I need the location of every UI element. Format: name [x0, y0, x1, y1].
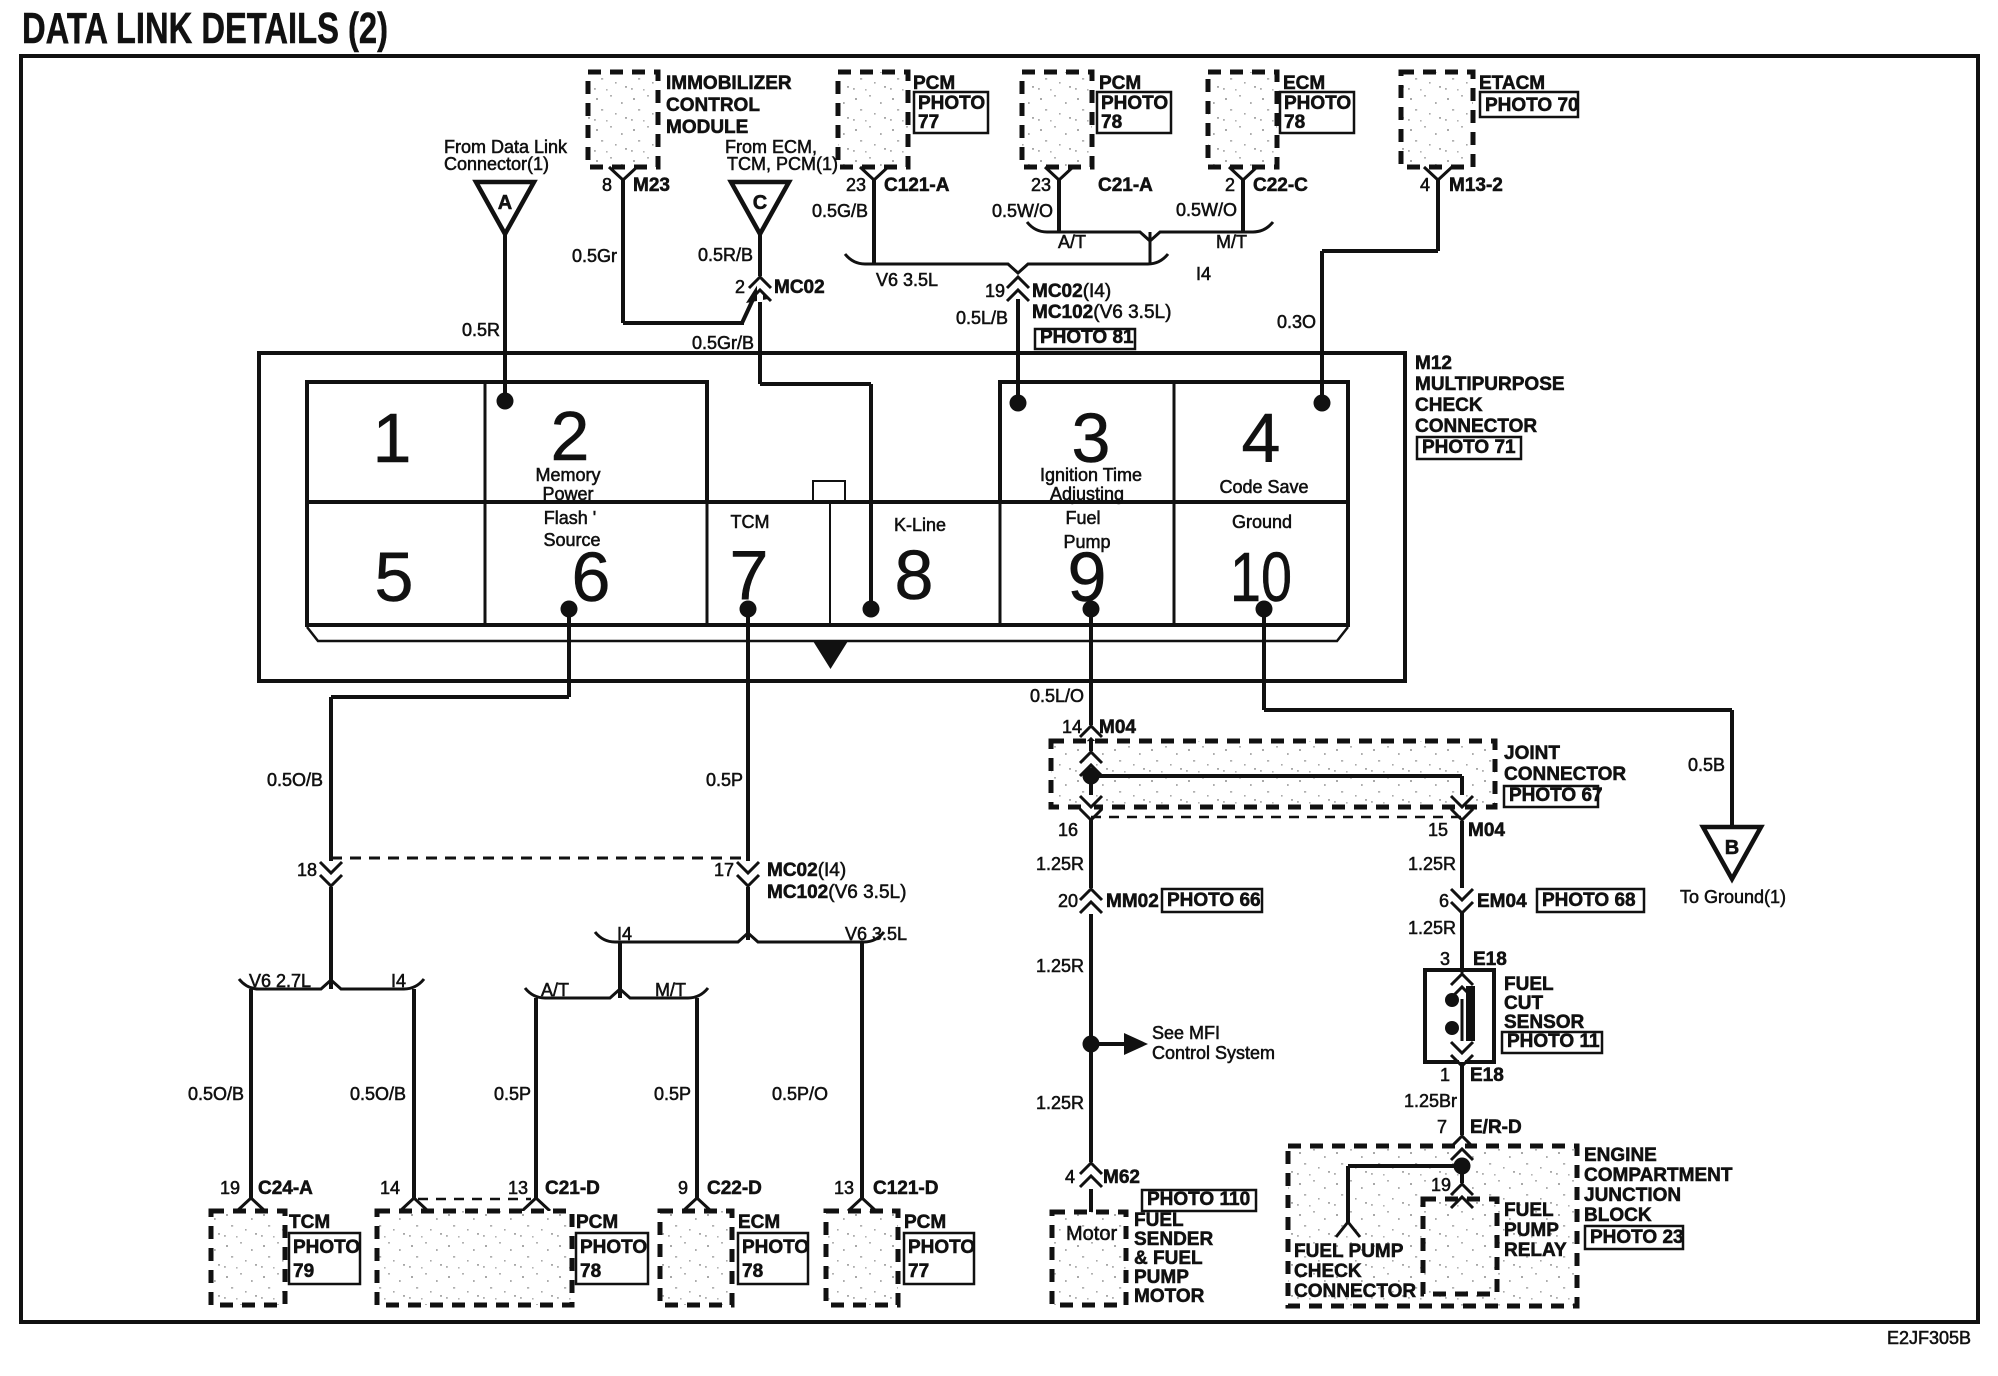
svg-text:ECM: ECM	[738, 1212, 780, 1233]
engine compartment junction block box (dashed)	[1288, 1146, 1577, 1306]
node pin 9	[1083, 601, 1100, 618]
wire inside fuel cut sensor	[1461, 970, 1464, 1062]
connector C21-D pin 13	[522, 1198, 550, 1211]
svg-text:Control System: Control System	[1152, 1043, 1275, 1063]
svg-text:0.3O: 0.3O	[1277, 312, 1316, 332]
svg-text:A/T: A/T	[1058, 232, 1086, 252]
svg-text:2: 2	[735, 277, 745, 297]
svg-text:PHOTO: PHOTO	[580, 1237, 647, 1258]
wire 0.5G/B from C121-A	[872, 179, 876, 264]
joint connector entry chevrons	[1080, 752, 1102, 776]
wire 0.5B from pin 10	[1262, 609, 1266, 710]
svg-text:MULTIPURPOSE: MULTIPURPOSE	[1415, 374, 1565, 395]
svg-text:V6 3.5L: V6 3.5L	[876, 270, 938, 290]
svg-text:FUEL PUMP: FUEL PUMP	[1294, 1241, 1404, 1262]
PCM wide box (dashed)	[377, 1211, 572, 1305]
wire 1.25R down left chain	[1089, 820, 1093, 1162]
svg-text:PUMP: PUMP	[1504, 1220, 1559, 1241]
svg-text:0.5Gr/B: 0.5Gr/B	[692, 333, 754, 353]
svg-text:I4: I4	[391, 971, 406, 991]
svg-text:ENGINE: ENGINE	[1584, 1145, 1657, 1166]
wire stub from A/T-M/T merge	[1149, 232, 1152, 264]
svg-text:MODULE: MODULE	[666, 117, 748, 138]
svg-text:4: 4	[1242, 399, 1281, 477]
svg-text:1.25R: 1.25R	[1036, 956, 1084, 976]
PCM box (dashed, photo 77)	[838, 72, 908, 167]
svg-text:77: 77	[908, 1261, 929, 1282]
dashed lower edge of joint connector	[1091, 816, 1462, 819]
svg-text:JOINT: JOINT	[1504, 743, 1560, 764]
svg-text:0.5B: 0.5B	[1688, 755, 1725, 775]
fuel cut sensor contact symbol	[1445, 993, 1459, 1007]
wire 0.5O/B down to brace	[329, 697, 333, 989]
in-line connector MC02/MC102 pin 19	[1007, 277, 1029, 301]
option brace V6 3.5L | I4	[845, 254, 1168, 273]
in-line connector EM04 pin 6	[1451, 889, 1473, 913]
svg-text:0.5P: 0.5P	[706, 770, 743, 790]
svg-text:PHOTO 23: PHOTO 23	[1590, 1227, 1684, 1248]
connector pin 14	[400, 1198, 428, 1211]
wire 1.25R to fuel cut sensor	[1460, 912, 1464, 970]
svg-text:PHOTO 66: PHOTO 66	[1167, 890, 1261, 911]
divider cell3|4	[1173, 382, 1176, 502]
connector C121-A pin 23	[860, 167, 888, 180]
wire K-line down to M12 pin 8	[869, 384, 873, 609]
ETACM box (dashed)	[1401, 72, 1473, 167]
divider cell1|2	[484, 382, 487, 502]
arrowhead into MC02	[746, 284, 768, 303]
svg-text:Motor: Motor	[1066, 1223, 1117, 1245]
svg-text:M23: M23	[633, 175, 670, 196]
immobilizer control module box (dashed)	[588, 72, 658, 167]
svg-text:PHOTO 71: PHOTO 71	[1422, 437, 1516, 458]
M12 multipurpose check connector outer box	[259, 353, 1405, 681]
fuel sender & fuel pump motor box (dashed)	[1052, 1212, 1126, 1305]
svg-text:Ignition Time: Ignition Time	[1040, 465, 1142, 485]
wire arrow to MFI note	[1091, 1042, 1128, 1046]
connector C22-C pin 2	[1229, 167, 1257, 180]
svg-text:PHOTO 67: PHOTO 67	[1509, 785, 1603, 806]
svg-text:18: 18	[297, 860, 317, 880]
svg-text:MC02(I4): MC02(I4)	[1032, 281, 1111, 302]
svg-text:0.5P: 0.5P	[494, 1084, 531, 1104]
svg-text:FUEL: FUEL	[1504, 1200, 1554, 1221]
svg-text:COMPARTMENT: COMPARTMENT	[1584, 1165, 1733, 1186]
svg-text:PHOTO: PHOTO	[918, 93, 985, 114]
in-line connector MC02 pin 2	[749, 277, 771, 301]
in-line connector MM02 pin 20	[1080, 889, 1102, 913]
PHOTO 110 box	[1142, 1190, 1256, 1211]
wire 0.5W/O from C21-A	[1057, 179, 1061, 232]
svg-text:4: 4	[1420, 175, 1430, 195]
svg-text:0.5R: 0.5R	[462, 320, 500, 340]
svg-text:M62: M62	[1103, 1167, 1140, 1188]
svg-text:77: 77	[918, 112, 939, 133]
svg-text:Power: Power	[542, 484, 593, 504]
divider cell9|10	[1173, 502, 1176, 625]
connector E/R-D chevrons	[1451, 1136, 1473, 1160]
svg-text:E18: E18	[1470, 1065, 1504, 1086]
svg-text:& FUEL: & FUEL	[1134, 1248, 1203, 1269]
svg-text:V6 3.5L: V6 3.5L	[845, 924, 907, 944]
wire 0.5O/B (I4) down to pin 14	[412, 989, 416, 1198]
svg-text:M04: M04	[1468, 820, 1505, 841]
wire 0.5L/O from pin 9	[1089, 609, 1093, 741]
PHOTO 71 box	[1417, 437, 1521, 459]
svg-text:SENSOR: SENSOR	[1504, 1012, 1585, 1033]
option brace V6 2.7L | I4	[239, 979, 424, 989]
latch tab on connector	[813, 481, 845, 502]
svg-text:PHOTO 81: PHOTO 81	[1040, 327, 1134, 348]
svg-text:C22-D: C22-D	[707, 1178, 762, 1199]
node pin 6	[561, 601, 578, 618]
svg-text:M/T: M/T	[1216, 232, 1247, 252]
off-page triangle B (to ground)	[1703, 827, 1761, 879]
svg-text:9: 9	[678, 1178, 688, 1198]
svg-text:IMMOBILIZER: IMMOBILIZER	[666, 73, 792, 94]
svg-text:I4: I4	[617, 924, 632, 944]
svg-text:BLOCK: BLOCK	[1584, 1205, 1652, 1226]
node pin 7	[740, 601, 757, 618]
svg-text:TCM, PCM(1): TCM, PCM(1)	[727, 154, 838, 174]
wire 1.25Br to junction block	[1460, 1062, 1464, 1199]
wire 0.5W/O from C22-C	[1241, 179, 1245, 232]
wire across joint connector	[1091, 774, 1462, 778]
svg-text:6: 6	[1439, 891, 1449, 911]
svg-text:MC02(I4): MC02(I4)	[767, 860, 846, 881]
svg-text:To Ground(1): To Ground(1)	[1680, 887, 1786, 907]
sensor exit chevrons	[1451, 1042, 1473, 1066]
svg-text:M13-2: M13-2	[1449, 175, 1503, 196]
svg-text:16: 16	[1058, 820, 1078, 840]
PCM box (dashed, bottom right)	[826, 1211, 898, 1305]
svg-text:CHECK: CHECK	[1294, 1261, 1362, 1282]
svg-text:1.25R: 1.25R	[1408, 918, 1456, 938]
in-line connector pin 18	[320, 862, 342, 886]
wire from pin 6	[567, 609, 571, 697]
connector M13-2 pin 4	[1424, 167, 1452, 180]
joint connector exit pin 15	[1451, 796, 1473, 820]
svg-text:M/T: M/T	[655, 980, 686, 1000]
divider cell5|6	[484, 502, 487, 625]
node pin 2	[497, 393, 514, 410]
svg-text:C22-C: C22-C	[1253, 175, 1308, 196]
svg-text:1: 1	[1440, 1065, 1450, 1085]
wire into motor box	[1089, 1189, 1093, 1212]
svg-text:19: 19	[220, 1178, 240, 1198]
svg-text:CHECK: CHECK	[1415, 395, 1483, 416]
connector keying triangle	[813, 641, 848, 669]
PHOTO 23 box	[1585, 1226, 1683, 1249]
svg-text:RELAY: RELAY	[1504, 1240, 1567, 1261]
svg-text:FUEL: FUEL	[1134, 1210, 1184, 1231]
connector C22-D pin 9	[683, 1198, 711, 1211]
PHOTO 68 box	[1537, 889, 1644, 912]
svg-text:PHOTO 11: PHOTO 11	[1507, 1031, 1600, 1052]
svg-text:5: 5	[375, 538, 414, 616]
svg-text:CONNECTOR: CONNECTOR	[1294, 1281, 1416, 1302]
PHOTO 78 box	[1097, 92, 1171, 133]
ECM box (dashed)	[1208, 72, 1277, 167]
wire into joint connector	[1089, 741, 1093, 820]
svg-text:PHOTO 68: PHOTO 68	[1542, 890, 1636, 911]
svg-text:PCM: PCM	[576, 1212, 618, 1233]
svg-text:A: A	[498, 192, 512, 214]
M12 cells 1-2 box	[307, 382, 707, 502]
svg-text:0.5R/B: 0.5R/B	[698, 245, 753, 265]
node joint connector junction	[1083, 768, 1100, 785]
dashed link pin14-pin13	[418, 1198, 531, 1201]
svg-text:EM04: EM04	[1477, 891, 1527, 912]
svg-text:2: 2	[551, 397, 590, 475]
svg-text:78: 78	[742, 1261, 763, 1282]
svg-text:MM02: MM02	[1106, 891, 1159, 912]
connector M04 pin 14	[1080, 726, 1102, 750]
wire K-line horizontal jog	[760, 382, 871, 386]
svg-text:E18: E18	[1473, 949, 1507, 970]
svg-text:1.25R: 1.25R	[1408, 854, 1456, 874]
svg-text:E/R-D: E/R-D	[1470, 1117, 1522, 1138]
svg-text:FUEL: FUEL	[1504, 974, 1554, 995]
svg-text:V6 2.7L: V6 2.7L	[249, 971, 311, 991]
svg-text:0.5P/O: 0.5P/O	[772, 1084, 828, 1104]
svg-text:4: 4	[1065, 1167, 1075, 1187]
connector M23 pin 8	[609, 167, 637, 180]
wire 0.5P (M/T) down to C22-D	[695, 998, 699, 1198]
wire to fuel pump check connector	[1348, 1164, 1462, 1168]
svg-text:0.5W/O: 0.5W/O	[1176, 200, 1237, 220]
svg-text:PHOTO: PHOTO	[1284, 93, 1351, 114]
svg-text:7: 7	[1437, 1117, 1447, 1137]
TCM box (dashed)	[211, 1211, 285, 1305]
svg-text:PCM: PCM	[904, 1212, 946, 1233]
svg-text:0.5O/B: 0.5O/B	[267, 770, 323, 790]
svg-text:Memory: Memory	[535, 465, 600, 485]
connector flange trapezoid	[307, 627, 1348, 641]
svg-text:I4: I4	[1196, 264, 1211, 284]
option brace A/T | M/T	[1027, 222, 1273, 241]
svg-text:0.5W/O: 0.5W/O	[992, 201, 1053, 221]
svg-text:20: 20	[1058, 891, 1078, 911]
wire diagonal into MC02 junction	[742, 295, 755, 323]
svg-text:Fuel: Fuel	[1065, 508, 1100, 528]
wire I4 branch stub	[618, 942, 622, 998]
svg-text:3: 3	[1440, 949, 1450, 969]
svg-text:JUNCTION: JUNCTION	[1584, 1185, 1681, 1206]
joint connector exit pin 16	[1080, 796, 1102, 820]
wire 0.5L/B down to M12 pin3	[1016, 299, 1020, 403]
svg-text:13: 13	[834, 1178, 854, 1198]
svg-text:1.25R: 1.25R	[1036, 1093, 1084, 1113]
M12 cells 3-4 box	[1000, 382, 1348, 502]
PHOTO 11 box	[1502, 1032, 1602, 1053]
node MFI branch	[1083, 1036, 1100, 1053]
connector pin 19 chevrons	[1451, 1184, 1473, 1208]
node pin 10	[1256, 601, 1273, 618]
fuel pump check connector Y symbol	[1336, 1222, 1360, 1237]
svg-text:0.5P: 0.5P	[654, 1084, 691, 1104]
PHOTO 78 box (ECM bottom)	[738, 1233, 808, 1284]
svg-text:PUMP: PUMP	[1134, 1267, 1189, 1288]
svg-text:MC102(V6 3.5L): MC102(V6 3.5L)	[767, 882, 906, 903]
option brace I4 | V6 3.5L	[595, 932, 884, 942]
PHOTO 79 box	[289, 1233, 360, 1284]
PHOTO 70 box	[1480, 92, 1578, 117]
svg-text:C121-A: C121-A	[884, 175, 950, 196]
svg-text:1: 1	[373, 399, 412, 477]
svg-text:CONNECTOR: CONNECTOR	[1504, 764, 1626, 785]
svg-text:PHOTO: PHOTO	[742, 1237, 809, 1258]
svg-text:79: 79	[293, 1261, 314, 1282]
svg-text:Code Save: Code Save	[1219, 477, 1308, 497]
svg-text:1.25Br: 1.25Br	[1404, 1091, 1457, 1111]
wire stub to fuel pump relay	[1460, 1166, 1464, 1199]
svg-text:Ground: Ground	[1232, 512, 1292, 532]
dashed link line between 18 and 17	[331, 857, 750, 860]
svg-text:DATA LINK DETAILS (2): DATA LINK DETAILS (2)	[22, 4, 388, 53]
svg-text:A/T: A/T	[541, 980, 569, 1000]
svg-text:8: 8	[602, 175, 612, 195]
svg-text:C21-A: C21-A	[1098, 175, 1153, 196]
svg-text:PHOTO: PHOTO	[908, 1237, 975, 1258]
svg-text:M12: M12	[1415, 353, 1452, 374]
svg-text:Adjusting: Adjusting	[1050, 484, 1124, 504]
svg-text:14: 14	[1062, 717, 1082, 737]
node pin 4	[1314, 395, 1331, 412]
svg-text:C: C	[753, 192, 767, 214]
svg-text:CONTROL: CONTROL	[666, 95, 760, 116]
svg-text:Flash ': Flash '	[544, 508, 596, 528]
svg-text:0.5G/B: 0.5G/B	[812, 201, 868, 221]
node pin 8	[863, 601, 880, 618]
svg-text:CUT: CUT	[1504, 993, 1543, 1014]
fuel pump relay box (dashed)	[1423, 1199, 1497, 1294]
wire pin6 horizontal	[331, 695, 569, 699]
svg-text:K-Line: K-Line	[894, 515, 946, 535]
wire joint connector right exit down	[1460, 776, 1464, 888]
off-page triangle C (from ECM TCM PCM)	[731, 182, 789, 234]
svg-text:0.5Gr: 0.5Gr	[572, 246, 617, 266]
divider cell7|8	[829, 502, 831, 625]
node junction in block	[1454, 1158, 1471, 1175]
PHOTO 66 box	[1162, 889, 1262, 912]
svg-text:SENDER: SENDER	[1134, 1229, 1213, 1250]
wire 0.3O down to M12 pin4	[1320, 251, 1324, 403]
divider cell6|7	[706, 502, 709, 625]
wire 0.5P (A/T) down to C21-D	[534, 998, 538, 1198]
node pin 3	[1010, 395, 1027, 412]
wire 0.5B down to triangle B	[1730, 710, 1734, 827]
svg-text:MC02: MC02	[774, 277, 825, 298]
PHOTO 78 box (bottom)	[576, 1233, 648, 1284]
svg-text:TCM: TCM	[731, 512, 770, 532]
wire 0.5O/B (V6 2.7L) down to C24-A	[249, 989, 253, 1198]
wire 0.5P/O (V6 3.5L) down to C121-D	[860, 942, 864, 1198]
svg-text:TCM: TCM	[289, 1212, 330, 1233]
M12 bottom row cells 5-10	[307, 502, 1348, 625]
svg-text:MC102(V6 3.5L): MC102(V6 3.5L)	[1032, 302, 1171, 323]
svg-text:1.25R: 1.25R	[1036, 854, 1084, 874]
ECM box (dashed, bottom)	[660, 1211, 732, 1305]
wire 0.5R/B from triangle C through MC02 pin2	[758, 234, 762, 384]
joint connector box (dashed)	[1051, 741, 1495, 807]
svg-text:PHOTO: PHOTO	[1101, 93, 1168, 114]
svg-text:8: 8	[895, 536, 934, 614]
sensor entry chevrons	[1451, 974, 1473, 998]
connector C121-D pin 13	[848, 1198, 876, 1211]
PHOTO 77 box (bottom)	[904, 1233, 974, 1284]
in-line connector MC02/MC102 pin 17	[737, 862, 759, 886]
divider cell8|9	[999, 502, 1002, 625]
svg-text:23: 23	[1031, 175, 1051, 195]
svg-text:Connector(1): Connector(1)	[444, 154, 549, 174]
svg-text:C24-A: C24-A	[258, 1178, 313, 1199]
svg-text:M04: M04	[1099, 717, 1136, 738]
PHOTO 81 box	[1035, 329, 1135, 349]
connector C21-A pin 23	[1045, 167, 1073, 180]
svg-text:78: 78	[1284, 112, 1305, 133]
wire 0.5R from triangle A to M12 pin2	[503, 234, 507, 401]
svg-text:C121-D: C121-D	[873, 1178, 938, 1199]
wire 0.5P from pin 7	[746, 609, 750, 940]
fuel cut sensor box	[1425, 970, 1494, 1062]
svg-text:14: 14	[380, 1178, 400, 1198]
PHOTO 77 box	[914, 92, 988, 133]
PHOTO 78 box (ECM)	[1280, 92, 1354, 133]
svg-text:0.5O/B: 0.5O/B	[188, 1084, 244, 1104]
option brace A/T | M/T (lower)	[525, 988, 708, 998]
svg-text:CONNECTOR: CONNECTOR	[1415, 416, 1537, 437]
svg-text:2: 2	[1225, 175, 1235, 195]
connector C24-A pin 19	[237, 1198, 265, 1211]
wire 0.5B horizontal	[1264, 708, 1732, 712]
svg-text:PHOTO 110: PHOTO 110	[1147, 1189, 1250, 1210]
svg-text:B: B	[1725, 837, 1739, 859]
svg-text:E2JF305B: E2JF305B	[1887, 1328, 1971, 1348]
svg-text:15: 15	[1428, 820, 1448, 840]
wire 0.5Gr from M23 down	[621, 179, 625, 323]
PHOTO 67 box	[1504, 786, 1598, 807]
wire check connector stub	[1346, 1166, 1350, 1222]
in-line connector M62 pin 4	[1080, 1163, 1102, 1187]
svg-text:17: 17	[714, 860, 734, 880]
svg-text:13: 13	[508, 1178, 528, 1198]
svg-text:0.5O/B: 0.5O/B	[350, 1084, 406, 1104]
svg-text:C21-D: C21-D	[545, 1178, 600, 1199]
svg-text:78: 78	[580, 1261, 601, 1282]
wire 0.3O from M13-2	[1436, 179, 1440, 251]
svg-text:MOTOR: MOTOR	[1134, 1286, 1205, 1307]
svg-text:19: 19	[985, 281, 1005, 301]
svg-text:0.5L/B: 0.5L/B	[956, 308, 1008, 328]
svg-text:6: 6	[572, 538, 611, 616]
svg-text:78: 78	[1101, 112, 1122, 133]
svg-text:See MFI: See MFI	[1152, 1023, 1220, 1043]
wire M23 horizontal run	[623, 321, 744, 325]
PCM box (dashed, photo 78)	[1022, 72, 1092, 167]
off-page triangle A (from data link connector)	[476, 182, 534, 234]
svg-text:23: 23	[846, 175, 866, 195]
svg-text:PHOTO 70: PHOTO 70	[1485, 95, 1579, 116]
svg-text:0.5L/O: 0.5L/O	[1030, 686, 1084, 706]
svg-text:19: 19	[1431, 1175, 1451, 1195]
wire 0.3O horizontal	[1322, 249, 1438, 253]
svg-text:PHOTO: PHOTO	[293, 1237, 360, 1258]
